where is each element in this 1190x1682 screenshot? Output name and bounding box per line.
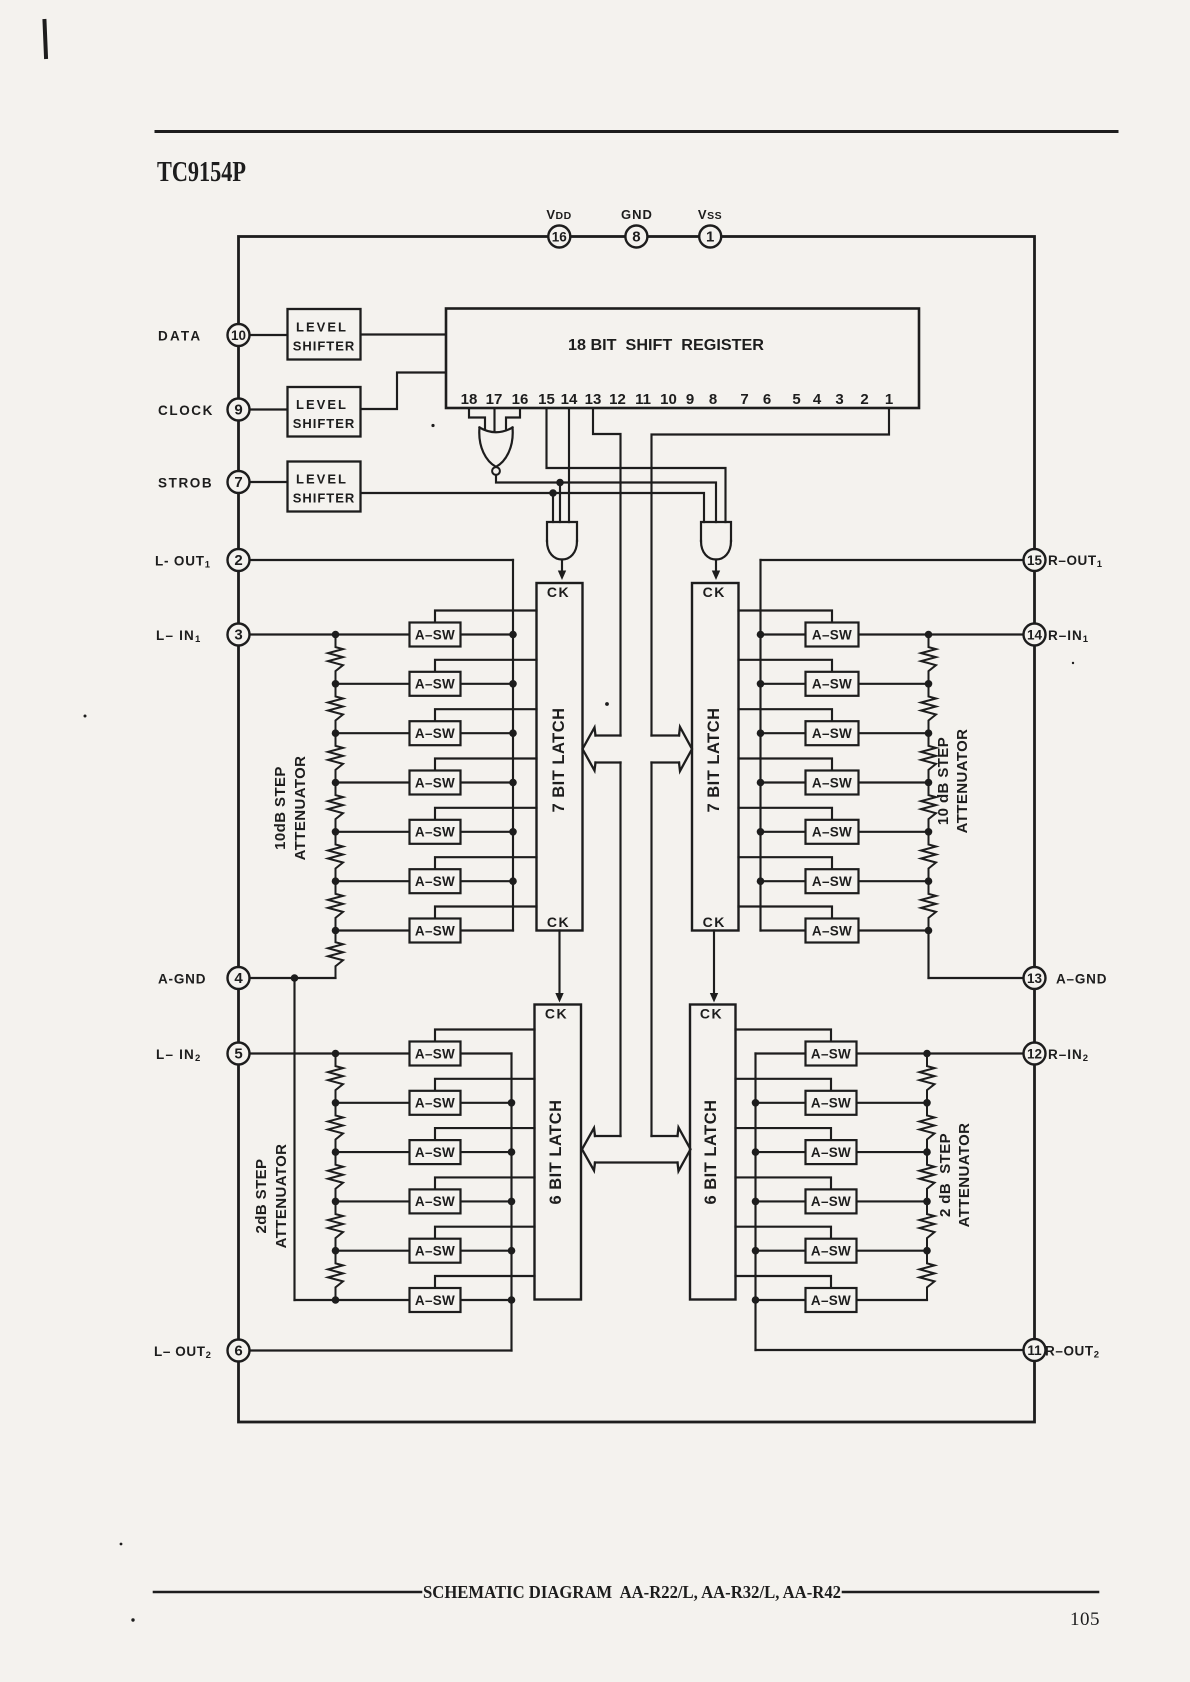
title TC9154P	[157, 156, 246, 188]
svg-text:3: 3	[234, 626, 242, 643]
svg-text:8: 8	[709, 391, 717, 408]
svg-text:L– IN1: L– IN1	[156, 628, 202, 645]
6-bit latch U11 (right)	[690, 1005, 736, 1300]
pin 16 VDD	[548, 226, 570, 248]
pin 3 L-IN1	[228, 624, 250, 646]
svg-text:7: 7	[740, 391, 748, 408]
wire register bit13 to latch data bus left	[593, 409, 621, 736]
analog switch SW L2-6	[410, 1288, 461, 1312]
pin 8 GND	[625, 226, 647, 248]
AND gate U6 (left strobe)	[547, 522, 577, 560]
svg-text:ATTENUATOR: ATTENUATOR	[273, 1144, 290, 1249]
label A-GND left	[158, 972, 206, 987]
svg-text:LEVEL: LEVEL	[296, 397, 348, 412]
svg-text:A–SW: A–SW	[415, 1244, 455, 1259]
wires A-SW R2-5	[736, 1227, 928, 1251]
svg-text:ATTENUATOR: ATTENUATOR	[954, 729, 971, 834]
svg-text:4: 4	[234, 970, 243, 987]
wire U8 CK to 6-bit latch	[555, 931, 563, 1003]
wire register bit15 to right AND gate	[547, 409, 726, 522]
svg-text:SHIFTER: SHIFTER	[293, 416, 356, 431]
wires A-SW R2-2	[736, 1079, 928, 1103]
analog switch SW R1-3	[806, 721, 859, 745]
wire pin3 L-IN1 row	[239, 633, 410, 635]
wires A-SW R2-4	[736, 1177, 928, 1201]
level shifter U1 box	[288, 309, 361, 360]
wire pin4 A-GND to attenuator	[239, 977, 336, 979]
svg-text:A–SW: A–SW	[415, 677, 455, 692]
top rule	[156, 130, 1117, 133]
footer rule with caption	[154, 1582, 1098, 1602]
analog switch SW L2-4	[410, 1189, 461, 1213]
svg-text:11: 11	[1027, 1343, 1042, 1358]
pin 7 STROB	[228, 471, 250, 493]
svg-text:7 BIT LATCH: 7 BIT LATCH	[550, 707, 568, 812]
wires A-SW L1-3	[336, 709, 537, 733]
wire pin14 R-IN1 row	[859, 633, 1035, 635]
svg-text:R–OUT2: R–OUT2	[1045, 1344, 1100, 1361]
6-bit latch U10 (left)	[535, 1005, 582, 1300]
analog switch SW L1-1	[410, 623, 461, 647]
wire register bit16 to NOR	[506, 409, 520, 429]
svg-text:CK: CK	[703, 914, 726, 930]
attenuator chain wire right-lower	[920, 1054, 935, 1301]
svg-text:15: 15	[538, 391, 555, 408]
svg-text:13: 13	[585, 391, 602, 408]
junction A-GND branch	[291, 974, 299, 1300]
svg-text:SHIFTER: SHIFTER	[293, 338, 356, 353]
attenuator chain wire left-lower	[328, 1054, 343, 1301]
2dB step attenuator label left	[253, 1144, 290, 1249]
svg-text:14: 14	[1027, 627, 1043, 642]
svg-text:SCHEMATIC DIAGRAM AA-R22/L, A: SCHEMATIC DIAGRAM AA-R22/L, AA-R32/L, AA…	[423, 1582, 841, 1602]
wire STROB rail to right AND gate	[361, 493, 705, 522]
pin 6 L-OUT2	[228, 1340, 250, 1362]
wire pin5 L-IN2 row	[239, 1052, 410, 1054]
analog switch SW R2-5	[806, 1239, 857, 1263]
wires A-SW R2-1	[736, 1030, 832, 1054]
svg-text:A–SW: A–SW	[812, 825, 852, 840]
svg-text:A–GND: A–GND	[1056, 972, 1107, 987]
wires A-SW L2-1	[435, 1030, 535, 1054]
wire NOR output to right AND gate	[496, 475, 716, 522]
svg-text:ATTENUATOR: ATTENUATOR	[956, 1123, 973, 1228]
pin 1 VSS	[699, 226, 721, 248]
svg-text:A–SW: A–SW	[415, 923, 455, 938]
svg-text:VSS: VSS	[698, 207, 722, 222]
attenuator chain taps left-lower	[332, 1050, 340, 1304]
svg-text:A–SW: A–SW	[415, 1046, 455, 1061]
svg-text:R–OUT1: R–OUT1	[1048, 553, 1103, 570]
analog switch SW R1-4	[806, 771, 859, 795]
svg-text:LEVEL: LEVEL	[296, 319, 348, 334]
analog switch SW L2-1	[410, 1042, 461, 1066]
analog switch SW R2-6	[806, 1288, 857, 1312]
svg-text:6: 6	[763, 391, 771, 408]
svg-text:TC9154P: TC9154P	[157, 156, 246, 188]
label L-OUT2	[154, 1344, 212, 1361]
wire U9 CK to 6-bit latch	[710, 931, 718, 1003]
svg-text:A–SW: A–SW	[812, 677, 852, 692]
svg-text:2dB STEP: 2dB STEP	[253, 1159, 270, 1234]
analog switch SW L1-7	[410, 919, 461, 943]
pin 13 A-GND	[1024, 967, 1046, 989]
svg-text:1: 1	[885, 391, 893, 408]
analog switch SW L1-4	[410, 771, 461, 795]
svg-text:A–SW: A–SW	[415, 1145, 455, 1160]
wires A-SW L1-5	[336, 808, 537, 832]
wire pin11 R-OUT2 to bus	[756, 1349, 1035, 1351]
10dB step attenuator label left	[272, 756, 309, 861]
svg-text:A–SW: A–SW	[811, 1046, 851, 1061]
svg-text:15: 15	[1027, 553, 1043, 568]
analog switch SW L2-3	[410, 1140, 461, 1164]
svg-text:A–SW: A–SW	[812, 775, 852, 790]
wire data bus right lower segment	[650, 763, 652, 1137]
wire pin9 to level shifter 2	[239, 408, 288, 410]
wire U6 output to 7-bit latch CK	[558, 560, 566, 581]
svg-text:CK: CK	[547, 584, 570, 600]
svg-text:2: 2	[234, 552, 242, 569]
wire pin10 to level shifter 1	[239, 334, 288, 336]
analog switch SW R2-3	[806, 1140, 857, 1164]
svg-text:L- OUT1: L- OUT1	[155, 554, 211, 571]
A-GND branch to row6 left	[295, 1299, 410, 1301]
svg-text:A–SW: A–SW	[812, 627, 852, 642]
svg-text:LEVEL: LEVEL	[296, 472, 348, 487]
analog switch SW R1-1	[806, 623, 859, 647]
pen mark top-left	[45, 21, 47, 57]
pin 14 R-IN1	[1024, 624, 1046, 646]
svg-text:CK: CK	[703, 584, 726, 600]
wire data bus left lower segment	[619, 763, 621, 1137]
wire level shifter 2 to shift register (CLOCK)	[361, 373, 447, 410]
svg-text:A–SW: A–SW	[811, 1145, 851, 1160]
svg-text:L– IN2: L– IN2	[156, 1047, 202, 1064]
wires A-SW R1-7	[739, 907, 929, 931]
label R-IN2	[1048, 1047, 1089, 1064]
analog switch SW R2-1	[806, 1042, 857, 1066]
svg-text:9: 9	[234, 401, 242, 418]
wires A-SW R1-5	[739, 808, 929, 832]
svg-text:A–SW: A–SW	[811, 1244, 851, 1259]
svg-text:A–SW: A–SW	[812, 923, 852, 938]
wires A-SW L1-7	[336, 907, 537, 931]
svg-text:10dB STEP: 10dB STEP	[272, 766, 289, 850]
R-OUT2 bus vertical	[754, 1054, 756, 1351]
label R-OUT2	[1045, 1344, 1100, 1361]
svg-text:12: 12	[609, 391, 626, 408]
L-OUT1 bus vertical	[512, 560, 514, 931]
wires A-SW L2-4	[336, 1177, 535, 1201]
wire pin15 R-OUT1 to bus	[761, 559, 1035, 561]
svg-text:VDD: VDD	[546, 207, 571, 222]
wires A-SW R2-6	[736, 1276, 832, 1300]
svg-text:A–SW: A–SW	[415, 825, 455, 840]
svg-text:7 BIT LATCH: 7 BIT LATCH	[705, 707, 723, 812]
svg-text:CLOCK: CLOCK	[158, 403, 214, 418]
label L-OUT1	[155, 554, 211, 571]
pin 5 L-IN2	[228, 1043, 250, 1065]
wires A-SW R1-1	[739, 611, 833, 635]
label GND	[621, 207, 653, 222]
L-OUT1 bus junction dots	[509, 631, 517, 885]
svg-text:R–IN1: R–IN1	[1048, 628, 1089, 645]
label R-IN1	[1048, 628, 1089, 645]
analog switch SW L2-5	[410, 1239, 461, 1263]
svg-text:5: 5	[234, 1045, 242, 1062]
AND gate U7 (right strobe)	[701, 522, 731, 560]
svg-text:7: 7	[234, 474, 242, 491]
svg-text:6: 6	[234, 1342, 242, 1359]
svg-text:A–SW: A–SW	[812, 874, 852, 889]
label STROB	[158, 476, 213, 491]
level shifter U2 box	[288, 387, 361, 437]
svg-text:A-GND: A-GND	[158, 972, 206, 987]
svg-text:A–SW: A–SW	[415, 1194, 455, 1209]
attenuator chain wire left-upper	[328, 635, 343, 979]
svg-text:17: 17	[486, 391, 503, 408]
wires A-SW R1-4	[739, 759, 929, 783]
L-OUT2 bus vertical	[510, 1054, 512, 1351]
svg-text:4: 4	[813, 391, 822, 408]
svg-text:13: 13	[1027, 971, 1043, 986]
wires A-SW L1-6	[336, 857, 537, 881]
R-OUT1 bus vertical	[759, 560, 761, 931]
junction STROB to left AND gate	[549, 489, 557, 522]
page number 105	[1070, 1609, 1100, 1630]
svg-text:6 BIT LATCH: 6 BIT LATCH	[547, 1099, 565, 1204]
wires A-SW L2-3	[336, 1128, 535, 1152]
svg-text:10: 10	[231, 328, 246, 343]
svg-text:SHIFTER: SHIFTER	[293, 491, 356, 506]
shift register output pin numbers 18-1	[461, 391, 894, 408]
10dB step attenuator label right	[935, 729, 971, 834]
NOR gate U5	[479, 428, 512, 475]
attenuator chain taps right-lower	[923, 1050, 931, 1255]
svg-text:L– OUT2: L– OUT2	[154, 1344, 212, 1361]
svg-text:8: 8	[632, 228, 640, 245]
wires A-SW L2-6	[435, 1276, 535, 1300]
svg-text:12: 12	[1027, 1046, 1042, 1061]
2dB step attenuator label right	[937, 1123, 973, 1228]
analog switch SW R1-7	[806, 919, 859, 943]
analog switch SW R1-5	[806, 820, 859, 844]
wire register bit14 to left AND gate	[568, 409, 570, 522]
wires A-SW R1-3	[739, 709, 929, 733]
wires A-SW R1-6	[739, 857, 929, 881]
wires A-SW L2-2	[336, 1079, 535, 1103]
svg-text:1: 1	[706, 228, 714, 245]
attenuator chain taps right-upper	[925, 631, 933, 935]
pin 12 R-IN2	[1024, 1043, 1046, 1065]
wire level shifter 1 to shift register (DATA)	[361, 333, 447, 335]
bidirectional data arrow lower	[582, 1128, 691, 1172]
bidirectional data arrow upper	[583, 727, 693, 771]
wire register bit1 to latch data bus right	[652, 409, 890, 736]
analog switch SW R1-6	[806, 869, 859, 893]
analog switch SW R1-2	[806, 672, 859, 696]
svg-text:GND: GND	[621, 207, 653, 222]
L-OUT2 bus junction dots	[508, 1099, 516, 1304]
svg-text:18: 18	[461, 391, 478, 408]
wires A-SW R2-3	[736, 1128, 928, 1152]
wire pin7 to level shifter 3	[239, 481, 288, 483]
svg-text:A–SW: A–SW	[811, 1194, 851, 1209]
wires A-SW L2-5	[336, 1227, 535, 1251]
svg-text:6 BIT LATCH: 6 BIT LATCH	[702, 1099, 720, 1204]
svg-text:STROB: STROB	[158, 476, 213, 491]
label L-IN1	[156, 628, 202, 645]
wire register bit18 to NOR	[469, 409, 485, 429]
svg-text:A–SW: A–SW	[415, 1293, 455, 1308]
svg-text:10 dB STEP: 10 dB STEP	[935, 737, 952, 825]
svg-text:2 dB STEP: 2 dB STEP	[937, 1133, 954, 1217]
svg-text:A–SW: A–SW	[811, 1293, 851, 1308]
svg-text:R–IN2: R–IN2	[1048, 1047, 1089, 1064]
analog switch SW R2-4	[806, 1189, 857, 1213]
svg-text:5: 5	[792, 391, 800, 408]
svg-text:A–SW: A–SW	[811, 1096, 851, 1111]
pin 10 DATA	[228, 324, 250, 346]
7-bit latch U9 (right)	[692, 583, 739, 931]
label CLOCK	[158, 403, 214, 418]
label A-GND right	[1056, 972, 1107, 987]
shift register U4	[446, 309, 919, 409]
pin 9 CLOCK	[228, 399, 250, 421]
analog switch SW L1-5	[410, 820, 461, 844]
svg-text:A–SW: A–SW	[415, 627, 455, 642]
svg-text:11: 11	[635, 391, 651, 408]
svg-text:A–SW: A–SW	[812, 726, 852, 741]
analog switch SW L1-3	[410, 721, 461, 745]
wire register bit17 to NOR	[493, 409, 495, 431]
label L-IN2	[156, 1047, 202, 1064]
svg-text:9: 9	[686, 391, 694, 408]
svg-text:CK: CK	[545, 1006, 568, 1022]
svg-text:A–SW: A–SW	[415, 726, 455, 741]
label R-OUT1	[1048, 553, 1103, 570]
wire U7 output to 7-bit latch CK	[712, 560, 720, 581]
wire pin13 A-GND to attenuator	[929, 977, 1035, 979]
wire pin12 R-IN2 row	[857, 1052, 1035, 1054]
IC boundary box	[239, 237, 1035, 1423]
label VSS	[698, 207, 722, 222]
pin 4 A-GND	[228, 967, 250, 989]
wire pin6 L-OUT2 to bus	[239, 1349, 512, 1351]
label VDD	[546, 207, 571, 222]
wires A-SW L1-4	[336, 759, 537, 783]
svg-text:CK: CK	[700, 1006, 723, 1022]
attenuator chain taps left-upper	[332, 631, 340, 935]
wires A-SW L1-2	[336, 660, 537, 684]
junction NOR output to left AND gate	[556, 479, 564, 522]
7-bit latch U8 (left)	[537, 583, 583, 931]
attenuator chain wire right-upper	[921, 635, 936, 979]
pin 11 R-OUT2	[1024, 1339, 1046, 1361]
svg-text:16: 16	[512, 391, 529, 408]
R-OUT2 bus junction dots	[752, 1099, 760, 1304]
label DATA	[158, 329, 202, 344]
svg-text:16: 16	[552, 229, 568, 244]
svg-text:2: 2	[860, 391, 868, 408]
pin 15 R-OUT1	[1024, 549, 1046, 571]
svg-text:105: 105	[1070, 1609, 1100, 1630]
page background speck marks	[84, 314, 1075, 1622]
svg-text:3: 3	[835, 391, 843, 408]
svg-text:18 BIT SHIFT REGISTER: 18 BIT SHIFT REGISTER	[568, 337, 764, 354]
analog switch SW L1-2	[410, 672, 461, 696]
analog switch SW R2-2	[806, 1091, 857, 1115]
analog switch SW L2-2	[410, 1091, 461, 1115]
wires A-SW R1-2	[739, 660, 929, 684]
svg-text:A–SW: A–SW	[415, 775, 455, 790]
wire pin2 L-OUT1 to bus	[239, 559, 514, 561]
chain bottom to row6 right	[857, 1299, 928, 1301]
level shifter U3 box	[288, 462, 361, 512]
analog switch SW L1-6	[410, 869, 461, 893]
svg-text:ATTENUATOR: ATTENUATOR	[292, 756, 309, 861]
svg-text:A–SW: A–SW	[415, 874, 455, 889]
svg-text:A–SW: A–SW	[415, 1096, 455, 1111]
wires A-SW L1-1	[435, 611, 537, 635]
svg-text:DATA: DATA	[158, 329, 202, 344]
svg-text:CK: CK	[547, 914, 570, 930]
pin 2 L-OUT1	[228, 549, 250, 571]
svg-text:10: 10	[660, 391, 677, 408]
R-OUT1 bus junction dots	[757, 631, 765, 885]
svg-text:14: 14	[561, 391, 578, 408]
